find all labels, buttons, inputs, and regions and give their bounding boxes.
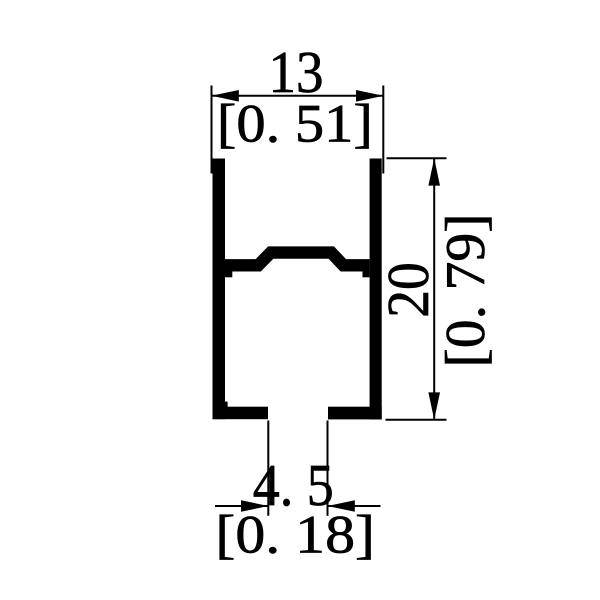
dim top: dimension line: [212, 95, 384, 97]
dim bottom: extension line right: [327, 421, 329, 516]
dim top: extension line right: [382, 86, 384, 174]
web ridge nub right: [363, 271, 370, 277]
svg-text:[0. 51]: [0. 51]: [217, 93, 373, 153]
dim right: dimension line: [433, 158, 435, 419]
profile bottom-left foot: [213, 407, 269, 420]
dim top: extension line left: [211, 86, 213, 174]
dim right: arrow up: [428, 158, 440, 185]
profile right wall: [370, 159, 382, 420]
svg-text:[0. 18]: [0. 18]: [215, 505, 375, 565]
web ridge nub left: [225, 271, 232, 277]
profile middle web with raised center: [225, 253, 370, 266]
dim bottom: arrow left (pointing right): [241, 500, 268, 512]
svg-text:20: 20: [375, 262, 441, 318]
dim top: arrow right: [356, 90, 383, 102]
dim right: extension line bottom: [386, 419, 447, 421]
foot step nub left: [225, 402, 228, 408]
dim bottom: arrow right (pointing left): [328, 500, 355, 512]
profile bottom-right foot: [328, 407, 382, 420]
dim bottom: leader line left: [215, 505, 268, 507]
dim top: arrow left: [212, 90, 239, 102]
dim bottom: leader line right: [328, 505, 381, 507]
profile left wall: [213, 159, 226, 420]
dim bottom: extension line left: [267, 421, 269, 516]
svg-text:[0. 79]: [0. 79]: [435, 214, 497, 368]
foot step nub right: [377, 402, 380, 408]
dim right: arrow down: [428, 392, 440, 419]
dim right: extension line top: [387, 157, 447, 159]
